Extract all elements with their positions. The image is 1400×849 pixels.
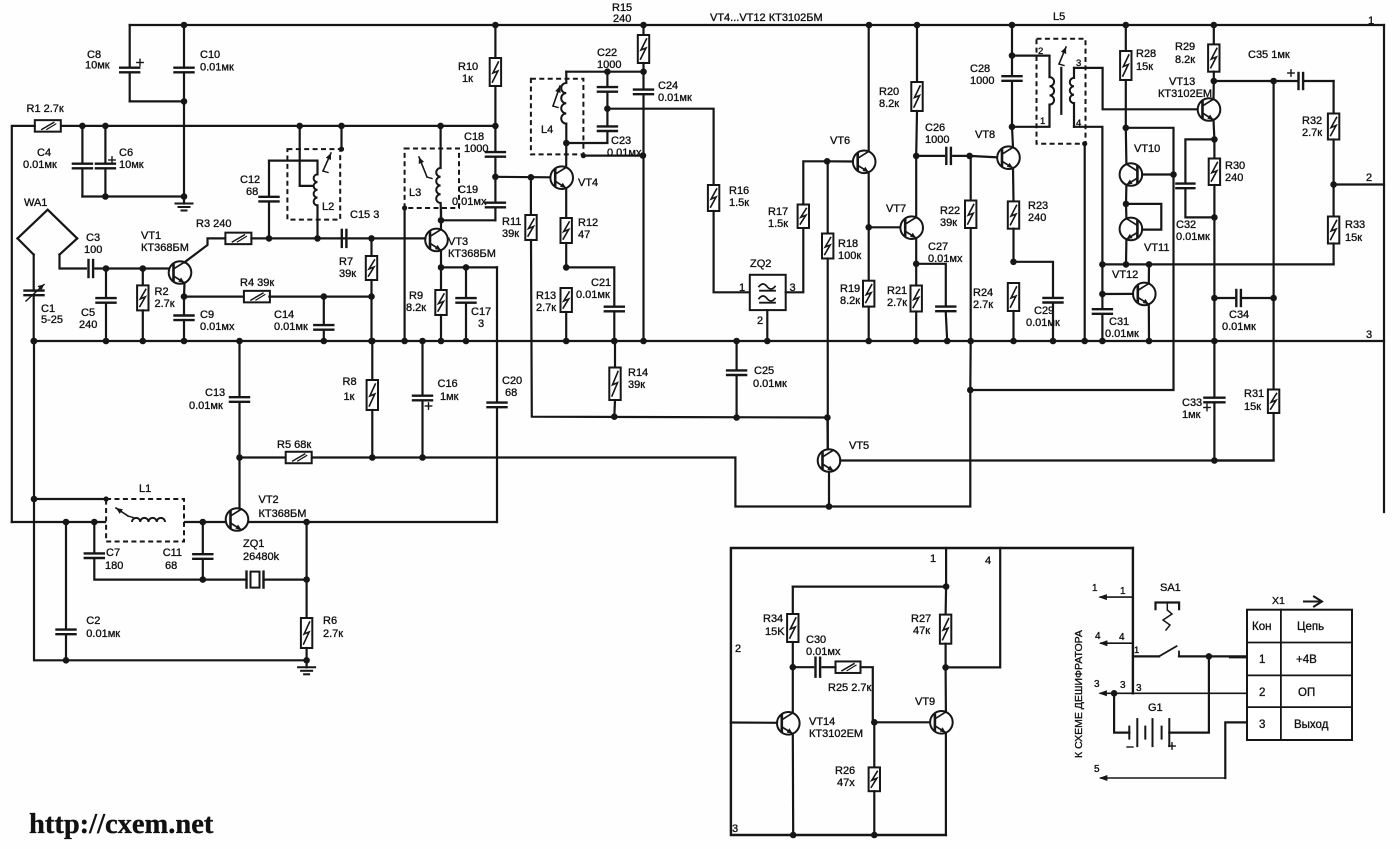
- svg-text:R6: R6: [323, 615, 337, 627]
- resistor R11 39k: [502, 174, 537, 240]
- svg-text:26480k: 26480k: [243, 551, 280, 563]
- svg-text:C9: C9: [200, 309, 214, 321]
- svg-text:C25: C25: [754, 365, 774, 377]
- svg-text:R19: R19: [840, 283, 860, 295]
- resistor R26 47k: [835, 722, 880, 835]
- ground near C10: [183, 197, 185, 204]
- wire ZQ2 pin2 to rail3: [766, 310, 768, 341]
- wire C22 node to R16: [607, 109, 713, 185]
- svg-text:C21: C21: [591, 277, 611, 289]
- svg-text:C27: C27: [928, 241, 948, 253]
- svg-text:0.01мх: 0.01мх: [452, 196, 487, 208]
- svg-text:C31: C31: [1109, 316, 1129, 328]
- svg-text:8.2к: 8.2к: [879, 98, 899, 110]
- svg-text:VT10: VT10: [1134, 143, 1160, 155]
- svg-text:C6: C6: [119, 147, 133, 159]
- wire C4 C6 ground link: [82, 195, 184, 197]
- svg-text:VT13: VT13: [1169, 76, 1195, 88]
- svg-text:Выход: Выход: [1294, 719, 1329, 731]
- svg-text:R5 68к: R5 68к: [277, 439, 311, 451]
- wire VT7 emitter node: [915, 238, 917, 264]
- wire VT1 collector to R3: [185, 238, 226, 262]
- svg-text:R18: R18: [838, 238, 858, 250]
- svg-text:R25 2.7к: R25 2.7к: [828, 682, 872, 694]
- svg-text:240: 240: [1028, 212, 1046, 224]
- svg-text:180: 180: [105, 560, 123, 572]
- svg-text:C4: C4: [37, 147, 51, 159]
- svg-text:2: 2: [757, 315, 763, 327]
- capacitor C21 0.01mk: [576, 277, 624, 341]
- svg-text:15к: 15к: [1136, 61, 1153, 73]
- svg-text:L4: L4: [541, 124, 553, 136]
- resistor R14 39k: [609, 338, 648, 417]
- wire VT7 collector: [915, 156, 917, 218]
- svg-text:R33: R33: [1345, 219, 1365, 231]
- svg-text:L2: L2: [322, 201, 334, 213]
- resistor R22 39k: [940, 153, 976, 341]
- svg-text:3: 3: [478, 318, 484, 330]
- svg-text:240: 240: [613, 13, 631, 25]
- crystal ZQ1 26480k: [203, 538, 307, 588]
- resistor R20 8.2k: [879, 22, 923, 156]
- svg-text:4: 4: [1095, 631, 1101, 642]
- transistor VT9: [915, 696, 953, 734]
- svg-text:1: 1: [1134, 645, 1139, 656]
- svg-text:C33: C33: [1182, 397, 1202, 409]
- svg-text:C11: C11: [163, 547, 182, 559]
- capacitor C35 1mk: [1214, 49, 1334, 89]
- svg-text:C28: C28: [970, 63, 990, 75]
- wire left common column: [31, 338, 38, 345]
- wire VT5 collector up: [826, 418, 829, 450]
- capacitor C25 0.01mk: [727, 338, 787, 418]
- svg-text:0.01мх: 0.01мх: [806, 646, 841, 658]
- transistor VT11 diode-connected: [1120, 218, 1170, 254]
- wire R7 bottom to rail3: [370, 297, 372, 341]
- svg-text:КТ3102ЕМ: КТ3102ЕМ: [809, 728, 863, 740]
- svg-text:G1: G1: [1148, 702, 1163, 714]
- resistor R7 39k: [339, 235, 377, 297]
- svg-text:X1: X1: [1272, 595, 1285, 607]
- transistor VT10: [1120, 143, 1161, 186]
- svg-text:КТ368БМ: КТ368БМ: [448, 248, 496, 260]
- svg-text:ОП: ОП: [1298, 687, 1315, 699]
- resistor R6 2.7k: [301, 580, 343, 661]
- capacitor C18 1000: [464, 123, 505, 177]
- svg-text:0.01мк: 0.01мк: [189, 400, 223, 412]
- svg-text:39к: 39к: [628, 379, 645, 391]
- svg-text:C13: C13: [205, 387, 225, 399]
- resistor R27 47k: [911, 587, 951, 668]
- wire VT6 emitter to VT7 base: [868, 172, 870, 227]
- inductor L1 with dashed box: [106, 483, 184, 542]
- wire VT14 emitter: [792, 734, 795, 835]
- wire R11 bottom down to AGC line: [531, 240, 827, 418]
- svg-text:240: 240: [1225, 172, 1243, 184]
- svg-text:VT8: VT8: [975, 129, 995, 141]
- svg-text:4: 4: [1119, 632, 1125, 643]
- wire VT2 right line to C20: [248, 521, 497, 523]
- resistor R21 2.7k: [887, 264, 922, 341]
- antenna WA1: [18, 197, 78, 255]
- svg-text:C24: C24: [658, 80, 678, 92]
- svg-text:1: 1: [1120, 586, 1126, 597]
- svg-text:3: 3: [1366, 329, 1372, 341]
- capacitor C16 1mk electrolytic: [413, 338, 459, 458]
- svg-text:SA1: SA1: [1160, 582, 1181, 594]
- svg-text:R16: R16: [729, 185, 749, 197]
- svg-text:2: 2: [1259, 687, 1265, 699]
- svg-text:1000: 1000: [925, 134, 949, 146]
- wire VT12 emitter: [1148, 304, 1150, 341]
- svg-text:0.01мк: 0.01мк: [1026, 317, 1060, 329]
- capacitor C31 0.01mk: [1093, 294, 1139, 341]
- svg-text:3: 3: [1136, 683, 1142, 694]
- wire VT9 emitter: [945, 733, 947, 835]
- wire L3 shield to rail3: [402, 205, 407, 210]
- svg-text:3: 3: [1120, 680, 1126, 691]
- svg-text:R30: R30: [1225, 160, 1245, 172]
- wire L2 tap from rail2: [296, 123, 303, 130]
- wire VT3 base from C15: [349, 237, 426, 239]
- transistor VT5: [818, 440, 869, 472]
- transistor VT1 KT368BM: [141, 230, 191, 284]
- svg-text:VT2: VT2: [259, 494, 279, 506]
- resistor R33 15k: [1328, 185, 1365, 265]
- svg-text:R1 2.7к: R1 2.7к: [27, 103, 64, 115]
- wire R22 column to VT5 base path: [969, 341, 972, 390]
- wire R27 node to pin4: [946, 548, 1001, 667]
- transformer L5 with dashed box: [1012, 11, 1086, 144]
- transistor VT3 KT368BM: [425, 229, 496, 260]
- node VT3 collector: [438, 217, 445, 224]
- svg-text:2: 2: [1366, 172, 1372, 184]
- wire L5 pin3 to VT13 base: [1074, 68, 1198, 109]
- wire VT5 bottom lead: [828, 472, 830, 507]
- svg-text:R9: R9: [409, 290, 423, 302]
- wire VT8 base: [970, 156, 998, 157]
- capacitor C11 68: [163, 519, 213, 580]
- svg-text:R8: R8: [343, 376, 357, 388]
- svg-text:100к: 100к: [838, 250, 861, 262]
- svg-text:68: 68: [165, 560, 177, 572]
- svg-text:1: 1: [930, 553, 936, 565]
- wire antenna to C3: [60, 255, 87, 269]
- wire module internal node line: [945, 548, 947, 587]
- resistor R24 2.7k: [973, 283, 1019, 341]
- wire VT12 base: [1102, 293, 1133, 295]
- resistor R34 15K: [763, 587, 799, 668]
- capacitor C33 1mk: [1182, 397, 1224, 461]
- wire VT10 collector: [1125, 128, 1128, 164]
- wire VT8 collector: [1012, 127, 1013, 148]
- svg-text:C32: C32: [1176, 219, 1196, 231]
- wire L1 shield link: [31, 496, 38, 503]
- svg-text:1: 1: [1368, 15, 1374, 27]
- wire VT11 base loop: [1126, 204, 1161, 230]
- svg-text:C26: C26: [925, 122, 945, 134]
- svg-text:L5: L5: [1053, 11, 1065, 23]
- svg-text:2.7к: 2.7к: [323, 628, 343, 640]
- svg-text:R27: R27: [911, 613, 931, 625]
- transistor VT4: [550, 166, 598, 189]
- svg-text:3: 3: [732, 823, 738, 835]
- svg-text:0.01мк: 0.01мк: [200, 62, 234, 74]
- resistor R19 8.2k: [840, 227, 874, 341]
- svg-text:2: 2: [1038, 46, 1043, 57]
- svg-text:R34: R34: [763, 613, 783, 625]
- inductor L3 with dashed shield box: [405, 126, 459, 220]
- svg-text:5-25: 5-25: [41, 314, 63, 326]
- wire L4 top link: [566, 71, 643, 73]
- wire VT10 base column down to VT5 line: [970, 175, 1173, 391]
- transistor VT12: [1112, 269, 1156, 305]
- svg-text:К СХЕМЕ ДЕШИФРАТОРА: К СХЕМЕ ДЕШИФРАТОРА: [1073, 630, 1085, 758]
- capacitor C26 1000: [913, 122, 970, 164]
- svg-text:C17: C17: [471, 306, 491, 318]
- svg-text:Цепь: Цепь: [1297, 621, 1324, 633]
- svg-text:R10: R10: [458, 61, 478, 73]
- resistor R3 240: [196, 218, 251, 244]
- wire C34 right column: [1272, 81, 1274, 390]
- svg-text:0.01мк: 0.01мк: [274, 321, 308, 333]
- capacitor C6 10mk electrolytic: [96, 123, 144, 197]
- capacitor C23 0.01mk: [566, 105, 642, 159]
- wire arrow row1: [1100, 596, 1133, 598]
- connector table X1: [1247, 595, 1352, 740]
- svg-text:0.01мх: 0.01мх: [200, 321, 235, 333]
- wire R30 column down through C33: [1213, 217, 1215, 396]
- svg-text:1: 1: [739, 282, 745, 294]
- capacitor C10 0.01mk: [175, 22, 234, 197]
- resistor R31 15k: [1214, 388, 1279, 461]
- wire R12 node to C21: [566, 267, 614, 305]
- svg-text:R24: R24: [973, 287, 993, 299]
- wire module box outline: [731, 548, 1133, 835]
- svg-text:1мк: 1мк: [440, 391, 459, 403]
- wire L5 shield down to rail3: [1082, 141, 1087, 146]
- svg-text:1000: 1000: [970, 75, 994, 87]
- svg-text:VT1: VT1: [141, 230, 161, 242]
- capacitor C14 0.01mk: [274, 297, 333, 341]
- svg-text:C19: C19: [458, 184, 478, 196]
- wire ZQ2 pin3 to R17: [786, 228, 804, 292]
- resistor R23 240: [1008, 200, 1048, 262]
- battery G1: [1114, 656, 1209, 749]
- resistor R1 2.7k: [27, 103, 64, 132]
- resistor R13 2.7k: [536, 288, 572, 341]
- crystal filter ZQ2: [739, 258, 796, 327]
- svg-text:VT4: VT4: [578, 177, 598, 189]
- svg-text:3: 3: [1094, 679, 1100, 690]
- resistor R28 15k: [1120, 22, 1156, 128]
- svg-text:VT9: VT9: [915, 696, 935, 708]
- wire VT2 base line left: [12, 521, 226, 523]
- wire arrow row3 to table: [1100, 692, 1246, 694]
- transistor VT8: [975, 129, 1020, 169]
- svg-text:C30: C30: [806, 634, 826, 646]
- svg-text:3: 3: [1259, 719, 1265, 731]
- resistor R15 240: [612, 2, 649, 72]
- svg-text:C14: C14: [274, 309, 294, 321]
- capacitor C24 0.01mk: [634, 72, 692, 341]
- capacitor C29 0.01mk: [1014, 262, 1063, 341]
- svg-text:C2: C2: [86, 615, 100, 627]
- svg-text:C7: C7: [106, 547, 120, 559]
- svg-text:VT6: VT6: [830, 135, 850, 147]
- svg-text:8.2к: 8.2к: [406, 302, 426, 314]
- svg-text:1к: 1к: [462, 73, 473, 85]
- svg-text:ZQ2: ZQ2: [750, 258, 771, 270]
- svg-text:C10: C10: [200, 49, 220, 61]
- svg-text:R2: R2: [155, 286, 169, 298]
- wire VT10 base lead: [1142, 173, 1173, 175]
- svg-text:C20: C20: [502, 375, 522, 387]
- svg-text:Кон: Кон: [1252, 621, 1271, 633]
- svg-text:10мк: 10мк: [119, 159, 144, 171]
- resistor R12 47: [561, 188, 599, 267]
- wire rail2 after R1: [60, 125, 495, 127]
- capacitor C8 10mk: [85, 25, 143, 101]
- svg-text:C35 1мк: C35 1мк: [1248, 49, 1290, 61]
- svg-text:1: 1: [1092, 583, 1098, 594]
- capacitor C9 0.01mk: [175, 297, 235, 341]
- resistor R9 8.2k: [406, 267, 447, 341]
- svg-text:0.01мк: 0.01мк: [23, 159, 57, 171]
- capacitor C4 0.01mk: [23, 123, 92, 197]
- wire VT11 collector: [1125, 204, 1128, 219]
- switch SA1: [1133, 582, 1247, 656]
- svg-text:1: 1: [1259, 654, 1265, 666]
- resistor R2 2.7k: [137, 265, 175, 341]
- svg-text:ZQ1: ZQ1: [243, 538, 264, 550]
- capacitor C1 5-25 variable: [25, 255, 64, 341]
- wire right edge with taps 1-2-3: [1383, 25, 1385, 512]
- svg-text:10мк: 10мк: [85, 60, 110, 72]
- svg-text:0.01мк: 0.01мк: [86, 628, 120, 640]
- node 2 wire: [1334, 183, 1384, 185]
- svg-text:47к: 47к: [913, 625, 930, 637]
- svg-text:2.7к: 2.7к: [536, 302, 556, 314]
- resistor R8 1k: [343, 338, 379, 458]
- svg-text:C29: C29: [1034, 305, 1054, 317]
- wire R1 left to left edge: [12, 126, 35, 522]
- svg-text:2: 2: [735, 643, 741, 655]
- svg-text:68: 68: [246, 186, 258, 198]
- svg-text:15к: 15к: [1345, 232, 1362, 244]
- transistor VT13 KT3102EM: [1158, 76, 1220, 121]
- wire R4 node line: [184, 296, 244, 298]
- svg-text:R21: R21: [887, 285, 907, 297]
- resistor R30 240: [1209, 139, 1245, 217]
- svg-text:VT11: VT11: [1144, 242, 1169, 254]
- wire R3 right to C12/L2 node: [251, 237, 346, 239]
- wire collector node to C19: [441, 219, 495, 221]
- svg-text:39к: 39к: [940, 217, 957, 229]
- svg-text:R14: R14: [628, 367, 648, 379]
- svg-text:VT5: VT5: [849, 440, 869, 452]
- capacitor C22 1000: [597, 47, 621, 109]
- svg-text:1000: 1000: [597, 59, 621, 71]
- svg-text:R31: R31: [1244, 388, 1264, 400]
- transistor VT14 KT3102EM: [777, 712, 863, 740]
- svg-text:0.01мх: 0.01мх: [607, 147, 642, 159]
- capacitor C13 0.01mk: [189, 338, 249, 458]
- svg-text:C15 3: C15 3: [350, 209, 379, 221]
- capacitor C19 0.01mk: [452, 174, 505, 221]
- svg-text:R29: R29: [1175, 41, 1195, 53]
- capacitor C3 100: [84, 232, 171, 277]
- transistor VT6: [830, 135, 876, 173]
- svg-text:R11: R11: [502, 216, 521, 228]
- svg-text:0.01мк: 0.01мк: [1176, 231, 1210, 243]
- svg-text:VT14: VT14: [809, 716, 835, 728]
- resistor R4 39k: [240, 277, 274, 302]
- svg-text:КТ3102ЕМ: КТ3102ЕМ: [1158, 88, 1212, 100]
- svg-text:WA1: WA1: [24, 197, 47, 209]
- svg-text:R13: R13: [536, 290, 556, 302]
- inductor L4 with dashed box: [531, 72, 584, 155]
- wire arrow row4: [1101, 642, 1133, 644]
- svg-text:+4В: +4В: [1296, 654, 1317, 666]
- resistor R29 8.2k: [1175, 22, 1220, 81]
- capacitor C34 0.01mk: [1214, 290, 1273, 333]
- capacitor C27 0.01mk: [916, 241, 963, 341]
- capacitor C2 0.01mk: [57, 519, 121, 661]
- svg-text:VT4...VT12 КТ3102БМ: VT4...VT12 КТ3102БМ: [710, 12, 823, 24]
- svg-text:R3 240: R3 240: [196, 218, 231, 230]
- wire VT14 base from pin2: [731, 721, 777, 723]
- wire output row 5: [1101, 777, 1225, 779]
- svg-text:C3: C3: [86, 232, 100, 244]
- ground at R6: [306, 660, 308, 667]
- wire R28 node to VT10 base column: [1126, 128, 1174, 175]
- svg-text:15K: 15K: [765, 626, 785, 638]
- svg-text:R22: R22: [940, 205, 960, 217]
- svg-text:68: 68: [505, 387, 517, 399]
- wire bias line y264: [1102, 263, 1333, 265]
- svg-text:C12: C12: [240, 174, 260, 186]
- svg-text:2.7к: 2.7к: [1302, 127, 1322, 139]
- svg-text:100: 100: [84, 244, 102, 256]
- wire R4 right: [269, 296, 371, 298]
- svg-text:1000: 1000: [464, 143, 488, 155]
- svg-text:КТ368БМ: КТ368БМ: [259, 508, 307, 520]
- svg-text:1.5к: 1.5к: [768, 218, 788, 230]
- wire VT6 collector to rail1: [866, 22, 873, 29]
- wire table row1 stub: [1230, 656, 1247, 658]
- wire VT4 base line: [495, 176, 550, 179]
- svg-text:VT7: VT7: [886, 203, 906, 215]
- wire VT13 collector: [1212, 81, 1215, 99]
- svg-text:2.7к: 2.7к: [155, 298, 175, 310]
- svg-text:R7: R7: [339, 256, 353, 268]
- resistor R5 68k: [277, 439, 312, 463]
- svg-text:C5: C5: [81, 307, 95, 319]
- resistor R18 100k: [822, 158, 861, 449]
- wire VT2 emitter branch: [306, 522, 308, 580]
- resistor R25 2.7k: [828, 661, 873, 722]
- svg-text:VT12: VT12: [1112, 269, 1138, 281]
- resistor R17 1.5k: [768, 161, 827, 230]
- wire VT9 collector: [944, 667, 947, 712]
- transistor VT2 KT368BM: [226, 494, 307, 531]
- svg-text:0.01мх: 0.01мх: [928, 253, 963, 265]
- svg-text:C16: C16: [438, 378, 458, 390]
- wire VT10 emitter to VT11: [1125, 185, 1128, 204]
- wire R5 line: [240, 458, 830, 507]
- svg-text:2.7к: 2.7к: [887, 297, 907, 309]
